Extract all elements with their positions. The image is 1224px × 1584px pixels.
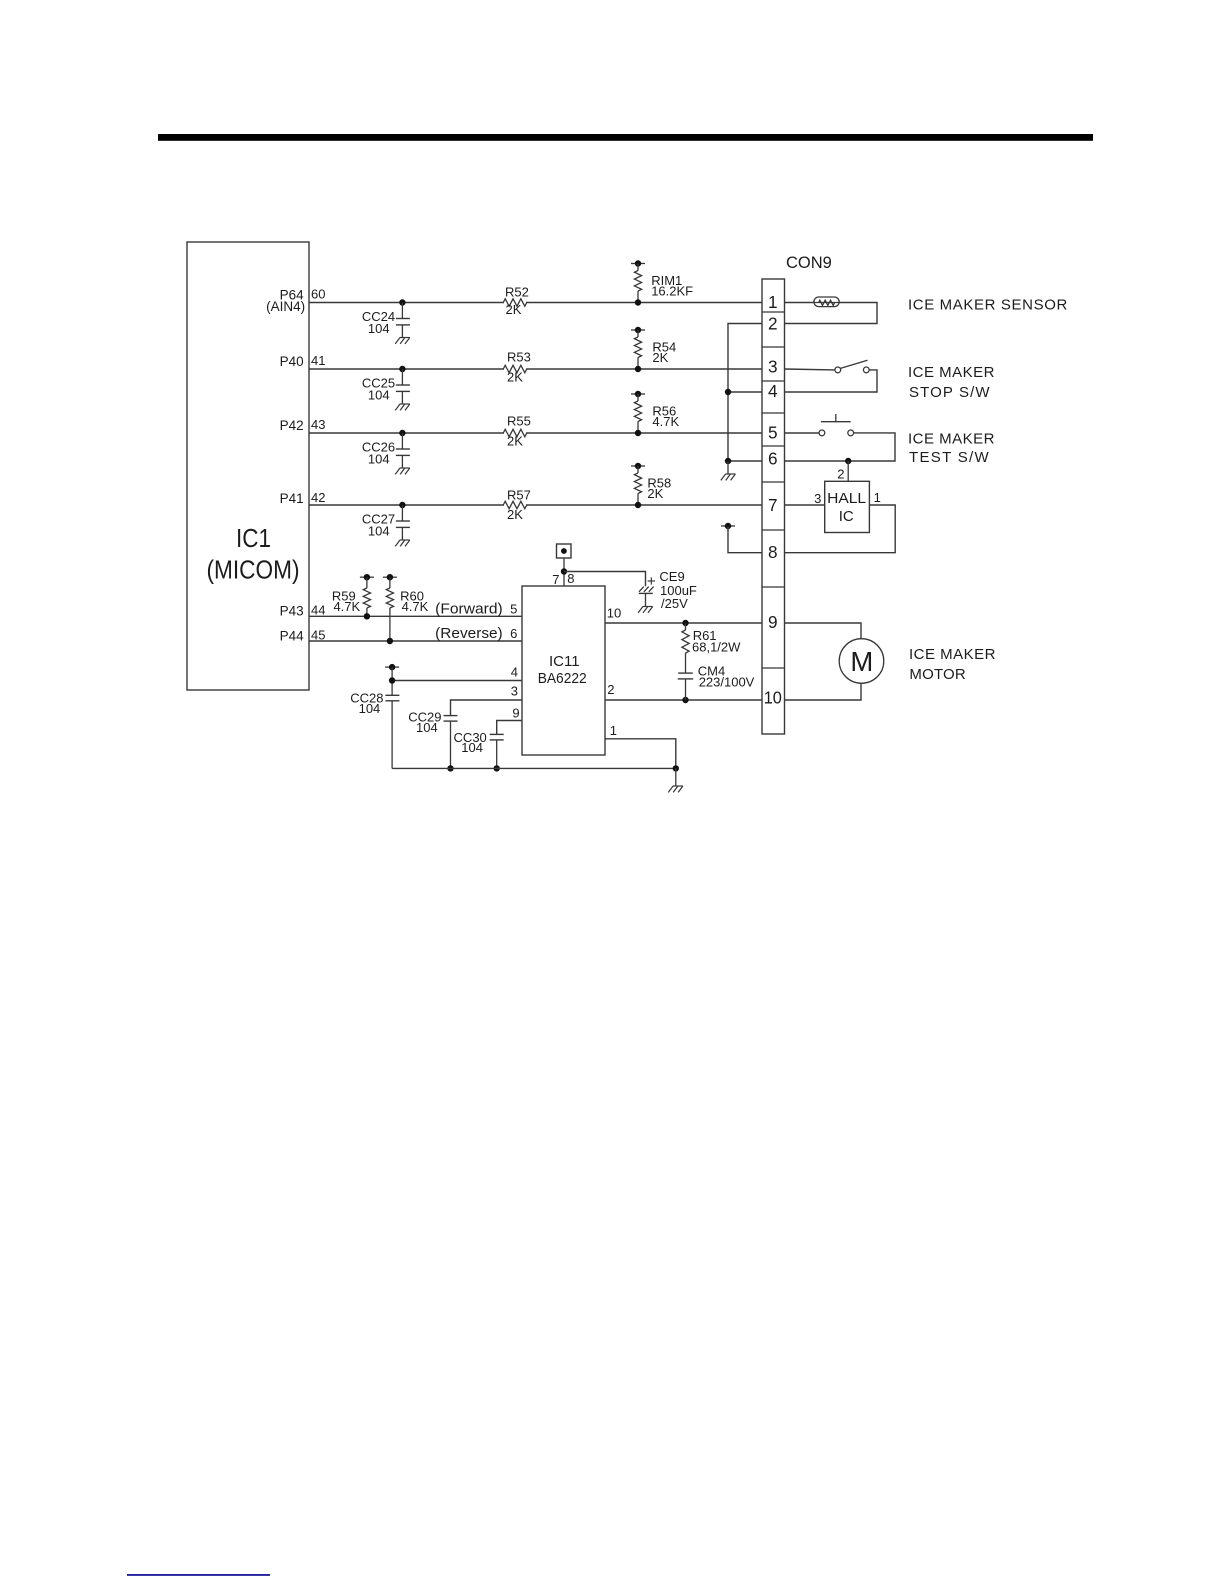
svg-text:P44: P44	[280, 629, 305, 644]
svg-text:2K: 2K	[647, 486, 663, 501]
svg-text:HALL: HALL	[827, 490, 866, 507]
svg-text:/25V: /25V	[661, 596, 688, 611]
svg-text:9: 9	[512, 706, 519, 721]
ic11 pin 5 label	[510, 601, 517, 616]
capacitor CC26 104	[362, 430, 410, 475]
pin label P44, pin 45	[280, 628, 326, 644]
ic11 pin 10 label	[607, 606, 621, 621]
svg-text:M: M	[850, 646, 873, 677]
svg-text:43: 43	[311, 417, 325, 432]
svg-text:4: 4	[768, 381, 778, 401]
wire CON9 pin2-pin4-pin6 bus	[725, 324, 762, 465]
svg-text:1: 1	[610, 723, 617, 738]
pin label P64 (AIN4), pin 60	[266, 287, 325, 315]
wire P41 row to CON9 pin 7	[309, 504, 762, 506]
svg-text:(AIN4): (AIN4)	[266, 299, 305, 314]
svg-text:STOP S/W: STOP S/W	[909, 384, 991, 401]
bottom blue rule	[127, 1574, 270, 1576]
hall pin 2 label	[837, 467, 844, 482]
resistor R56 4.7K	[631, 391, 679, 436]
svg-text:5: 5	[510, 601, 517, 616]
resistor RIM1 16.2KF	[631, 260, 693, 305]
capacitor CC25 104	[362, 366, 410, 411]
svg-text:IC: IC	[839, 508, 854, 525]
svg-text:223/100V: 223/100V	[699, 675, 755, 690]
wire CON9 pin10 to motor	[785, 683, 862, 700]
ground rail	[392, 767, 676, 769]
svg-text:60: 60	[311, 287, 325, 302]
svg-text:CE9: CE9	[659, 569, 684, 584]
ic11 pins 7,8 riser	[561, 558, 567, 586]
svg-text:ICE MAKER: ICE MAKER	[908, 430, 995, 447]
svg-text:8: 8	[567, 571, 574, 586]
wire CON9 pin7 to hall pin3	[785, 504, 825, 506]
capacitor CC30 104	[454, 730, 504, 772]
resistor R57 2K	[503, 488, 531, 522]
capacitor CC27 104	[362, 502, 410, 547]
svg-text:2K: 2K	[507, 433, 523, 448]
wire CON9 pin 8 tap	[721, 523, 762, 553]
svg-text:R55: R55	[507, 413, 531, 428]
wire IC11 pin4 row	[392, 680, 522, 682]
wire CON9 pin3 to stop switch	[785, 368, 835, 371]
label (Reverse)	[435, 625, 503, 642]
svg-text:R53: R53	[507, 350, 531, 365]
label ICE MAKER SENSOR	[908, 296, 1068, 313]
switch ICE MAKER TEST S/W	[819, 414, 854, 436]
svg-text:2K: 2K	[507, 370, 523, 385]
label ICE MAKER STOP S/W	[908, 364, 995, 401]
svg-text:2K: 2K	[507, 507, 523, 522]
svg-text:3: 3	[511, 684, 518, 699]
wire P42 row to CON9 pin 5	[309, 432, 762, 434]
resistor R60 4.7K	[383, 574, 429, 644]
resistor R53 2K	[503, 350, 531, 385]
resistor R58 2K	[631, 463, 671, 508]
resistor R54 2K	[631, 327, 676, 372]
svg-text:ICE MAKER: ICE MAKER	[908, 364, 995, 381]
ic11 pin 4 label	[511, 665, 518, 680]
wire IC11 pin9 to CC30	[497, 721, 522, 735]
resistor R55 2K	[503, 413, 531, 448]
ic HALL IC box	[825, 481, 870, 532]
wire IC11 pin2 to CON9 pin10	[605, 697, 762, 703]
capacitor CC28 104	[350, 664, 399, 769]
svg-text:(Reverse): (Reverse)	[435, 625, 503, 642]
svg-text:41: 41	[311, 353, 325, 368]
svg-text:4.7K: 4.7K	[333, 599, 360, 614]
svg-text:IC11: IC11	[549, 653, 580, 670]
label ICE MAKER TEST S/W	[908, 430, 995, 466]
wire IC11 pin3 to CC29	[451, 700, 523, 716]
ic IC11 label	[538, 653, 587, 687]
capacitor CM4 223/100V	[678, 653, 755, 700]
svg-text:P43: P43	[280, 603, 304, 618]
wire riser to CE9	[564, 572, 646, 587]
resistor R52 2K	[503, 285, 529, 318]
ic IC1 (MICOM) box	[187, 242, 309, 690]
pin label P40, pin 41	[280, 353, 326, 369]
wire sensor to CON9 pin2	[785, 303, 878, 324]
ic11 pin 9 label	[512, 706, 519, 721]
svg-text:R57: R57	[507, 488, 531, 503]
resistor R59 4.7K	[332, 574, 374, 620]
wire P40 row to CON9 pin 3	[309, 368, 762, 370]
wire test switch to CON9 pin6	[785, 433, 896, 464]
svg-text:16.2KF: 16.2KF	[651, 283, 693, 298]
svg-text:104: 104	[368, 388, 390, 403]
svg-text:TEST S/W: TEST S/W	[909, 449, 990, 466]
svg-text:4: 4	[511, 665, 518, 680]
svg-text:IC1: IC1	[236, 523, 271, 553]
svg-text:104: 104	[368, 524, 390, 539]
svg-text:9: 9	[768, 612, 778, 632]
svg-text:P41: P41	[280, 491, 304, 506]
wire CON9 pin1 to sensor	[785, 302, 814, 304]
ic11 pin 7 label	[552, 572, 559, 587]
svg-text:(MICOM): (MICOM)	[207, 555, 300, 585]
top horizontal rule	[158, 134, 1093, 141]
svg-text:R52: R52	[505, 285, 529, 300]
ground at CON9 pin 6 bus	[721, 461, 736, 480]
wire CON9 pin5 to test switch	[785, 432, 820, 434]
connector CON9 body	[762, 279, 785, 734]
svg-text:10: 10	[607, 606, 621, 621]
svg-text:ICE MAKER SENSOR: ICE MAKER SENSOR	[908, 296, 1068, 313]
svg-text:ICE MAKER: ICE MAKER	[909, 646, 996, 663]
svg-text:104: 104	[368, 321, 390, 336]
wire P44 to IC11 pin6 (Reverse)	[309, 640, 522, 642]
svg-text:BA6222: BA6222	[538, 670, 587, 687]
capacitor CC24 104	[362, 299, 410, 344]
connector CON9 pin numbers	[764, 292, 782, 707]
svg-text:3: 3	[814, 491, 821, 506]
svg-text:45: 45	[311, 628, 325, 643]
wire IC11 pin1 to rail	[605, 739, 679, 772]
svg-text:4.7K: 4.7K	[652, 414, 679, 429]
svg-text:4.7K: 4.7K	[402, 599, 429, 614]
ic11 pin 6 label	[510, 626, 517, 641]
svg-text:2K: 2K	[506, 302, 522, 317]
svg-text:2: 2	[607, 682, 614, 697]
svg-text:P42: P42	[280, 418, 304, 433]
wire P43 to IC11 pin5 (Forward)	[309, 615, 522, 617]
svg-text:104: 104	[416, 720, 438, 735]
svg-text:2: 2	[837, 467, 844, 482]
label ICE MAKER MOTOR	[909, 646, 996, 683]
svg-text:2: 2	[768, 314, 778, 334]
svg-text:(Forward): (Forward)	[435, 600, 503, 617]
ic11 pin 1 label	[610, 723, 617, 738]
resistor R61 68.1/2W	[682, 623, 741, 655]
wire P64 row to CON9 pin 1	[309, 302, 762, 304]
svg-text:5: 5	[768, 423, 778, 443]
ic IC1 label	[207, 523, 300, 585]
svg-text:1: 1	[874, 490, 881, 505]
hall pin 1 label	[874, 490, 881, 505]
pin label P41, pin 42	[280, 490, 326, 506]
hall pin 3 label	[814, 491, 821, 506]
capacitor CE9 100uF/25V	[638, 569, 697, 613]
svg-text:7: 7	[768, 495, 778, 515]
wire hall pin1 to CON9 pin8	[785, 505, 896, 553]
pin label P43, pin 44	[280, 603, 326, 619]
hall ic label	[827, 490, 866, 525]
ic11 pin 8 label	[567, 571, 574, 586]
switch ICE MAKER STOP S/W	[835, 360, 869, 373]
ic11 pin 3 label	[511, 684, 518, 699]
wire stop switch to CON9 pin4	[785, 370, 878, 392]
ice maker sensor element	[814, 297, 839, 307]
svg-text:44: 44	[311, 603, 325, 618]
svg-text:104: 104	[461, 740, 483, 755]
label (Forward)	[435, 600, 503, 617]
svg-text:7: 7	[552, 572, 559, 587]
ground at rail	[668, 768, 683, 792]
svg-text:3: 3	[768, 357, 778, 377]
label CON9	[786, 254, 832, 272]
svg-text:MOTOR: MOTOR	[909, 666, 966, 683]
wire IC11 pin10 to CON9 pin9	[605, 620, 762, 626]
capacitor CC29 104	[408, 710, 457, 772]
svg-text:104: 104	[359, 701, 381, 716]
svg-text:6: 6	[768, 449, 778, 469]
svg-text:42: 42	[311, 490, 325, 505]
svg-text:8: 8	[768, 542, 778, 562]
ic11 pin 2 label	[607, 682, 614, 697]
svg-text:68,1/2W: 68,1/2W	[692, 640, 741, 655]
svg-text:104: 104	[368, 452, 390, 467]
svg-text:10: 10	[764, 688, 782, 708]
svg-text:2K: 2K	[652, 350, 668, 365]
test point boxed dot	[557, 544, 572, 558]
svg-text:1: 1	[768, 292, 778, 312]
wire CON9 pin9 to motor	[785, 623, 862, 639]
svg-text:6: 6	[510, 626, 517, 641]
pin label P42, pin 43	[280, 417, 326, 433]
ic IC11 BA6222 box	[522, 586, 605, 755]
svg-text:P40: P40	[280, 354, 304, 369]
svg-text:CON9: CON9	[786, 254, 832, 272]
motor M circle	[839, 639, 884, 684]
wire hall pin2 to pin6 row	[847, 461, 849, 481]
